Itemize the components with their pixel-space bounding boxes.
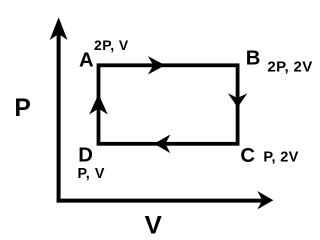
- svg-text:D: D: [78, 145, 93, 167]
- svg-text:V: V: [145, 212, 162, 238]
- svg-text:P, V: P, V: [78, 166, 106, 182]
- svg-text:2P, V: 2P, V: [94, 37, 129, 53]
- P axis (vertical): [50, 17, 68, 202]
- arrow D to A (up, on left edge): [89, 94, 108, 115]
- V axis (horizontal): [57, 191, 274, 209]
- process rectangle ABCD: [99, 65, 238, 144]
- svg-text:A: A: [79, 50, 94, 72]
- svg-text:P: P: [14, 95, 30, 122]
- svg-text:P, 2V: P, 2V: [263, 150, 298, 166]
- arrow B to C (down, on right edge): [228, 93, 247, 107]
- svg-text:B: B: [246, 48, 261, 70]
- svg-text:C: C: [240, 145, 255, 167]
- arrow C to D (left, on bottom edge): [154, 135, 170, 154]
- svg-text:2P, 2V: 2P, 2V: [267, 58, 312, 75]
- arrow A to B (right, on top edge): [148, 56, 165, 74]
